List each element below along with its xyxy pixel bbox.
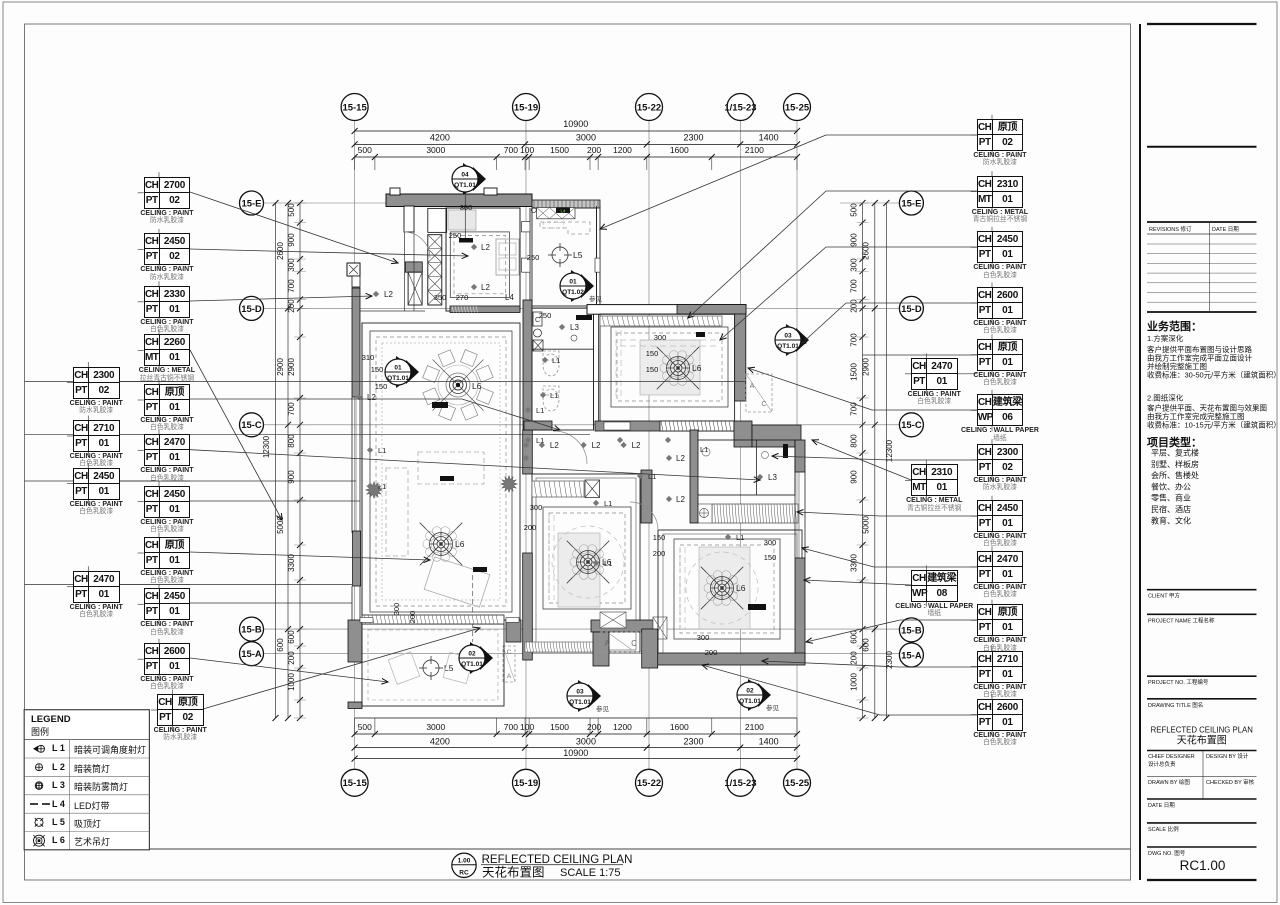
- svg-text:业务范围：: 业务范围：: [1147, 319, 1202, 333]
- svg-text:03: 03: [576, 689, 584, 696]
- svg-text:L1: L1: [604, 499, 612, 508]
- svg-text:02: 02: [746, 688, 754, 695]
- svg-text:700: 700: [287, 279, 296, 293]
- svg-text:700: 700: [850, 279, 859, 293]
- svg-text:15-B: 15-B: [901, 625, 922, 636]
- svg-text:15-25: 15-25: [785, 778, 810, 789]
- svg-text:300: 300: [850, 258, 859, 272]
- svg-text:L2: L2: [592, 441, 601, 450]
- svg-text:150: 150: [371, 365, 384, 374]
- svg-text:200: 200: [408, 611, 417, 624]
- svg-text:教育、文化: 教育、文化: [1151, 515, 1191, 525]
- svg-text:2900: 2900: [287, 358, 296, 376]
- svg-text:500: 500: [358, 722, 372, 732]
- svg-text:500: 500: [850, 203, 859, 217]
- svg-text:15-D: 15-D: [241, 304, 262, 315]
- svg-text:RC1.00: RC1.00: [1180, 858, 1226, 873]
- svg-text:150: 150: [653, 533, 666, 542]
- svg-text:CHECKED BY 审核: CHECKED BY 审核: [1206, 778, 1255, 786]
- svg-text:350: 350: [434, 293, 447, 302]
- svg-text:3300: 3300: [287, 554, 296, 572]
- svg-text:L6: L6: [455, 539, 465, 549]
- svg-text:L6: L6: [692, 363, 702, 373]
- svg-text:900: 900: [850, 233, 859, 247]
- svg-text:L3: L3: [570, 323, 579, 332]
- svg-text:10900: 10900: [563, 748, 588, 758]
- svg-text:5000: 5000: [862, 516, 871, 534]
- svg-text:由我方工作室完成完整施工图: 由我方工作室完成完整施工图: [1147, 411, 1245, 421]
- svg-text:100: 100: [520, 145, 534, 155]
- svg-text:1500: 1500: [850, 363, 859, 381]
- svg-text:A: A: [604, 639, 610, 648]
- svg-text:600: 600: [276, 638, 285, 652]
- svg-text:L1: L1: [378, 446, 386, 455]
- svg-text:L4: L4: [560, 208, 566, 213]
- svg-text:03: 03: [784, 333, 792, 340]
- svg-text:L2: L2: [384, 290, 393, 299]
- svg-text:L1: L1: [378, 482, 386, 491]
- svg-text:DATE 日期: DATE 日期: [1148, 802, 1175, 809]
- svg-text:参见: 参见: [596, 704, 610, 713]
- svg-text:QT1.01: QT1.01: [461, 661, 483, 668]
- svg-text:并绘制完整施工图: 并绘制完整施工图: [1147, 361, 1207, 371]
- svg-text:350: 350: [460, 203, 473, 212]
- svg-text:500: 500: [358, 145, 372, 155]
- svg-text:02: 02: [468, 651, 476, 658]
- svg-text:15-C: 15-C: [241, 420, 262, 431]
- svg-text:C: C: [507, 649, 512, 656]
- svg-text:15-22: 15-22: [637, 102, 661, 113]
- svg-text:REVISIONS 修订: REVISIONS 修订: [1149, 225, 1192, 233]
- svg-text:3000: 3000: [576, 737, 596, 747]
- svg-text:800: 800: [850, 434, 859, 448]
- svg-text:DRAWING TITLE 图名: DRAWING TITLE 图名: [1148, 701, 1203, 709]
- svg-text:REFLECTED CEILING PLAN: REFLECTED CEILING PLAN: [482, 854, 633, 866]
- svg-text:C: C: [761, 401, 766, 408]
- svg-text:100: 100: [520, 722, 534, 732]
- svg-text:L1: L1: [604, 559, 612, 568]
- svg-text:餐饮、办公: 餐饮、办公: [1151, 481, 1191, 491]
- svg-text:1600: 1600: [670, 145, 689, 155]
- svg-text:2100: 2100: [745, 145, 764, 155]
- svg-text:15-22: 15-22: [637, 778, 661, 789]
- svg-text:2.图纸深化: 2.图纸深化: [1147, 393, 1184, 403]
- svg-text:SCALE 比例: SCALE 比例: [1148, 825, 1179, 833]
- svg-text:15-D: 15-D: [901, 304, 922, 315]
- svg-text:200: 200: [705, 648, 718, 657]
- svg-text:150: 150: [646, 365, 659, 374]
- svg-text:L5: L5: [573, 250, 583, 260]
- svg-text:民宿、酒店: 民宿、酒店: [1151, 504, 1191, 514]
- svg-text:会所、售楼处: 会所、售楼处: [1151, 470, 1199, 480]
- svg-text:收费标准：30-50元/平方米（建筑面积）: 收费标准：30-50元/平方米（建筑面积）: [1147, 370, 1280, 380]
- svg-text:10900: 10900: [563, 119, 588, 129]
- svg-text:12300: 12300: [885, 439, 894, 462]
- svg-text:L3: L3: [768, 473, 777, 482]
- svg-text:SCALE 1:75: SCALE 1:75: [560, 867, 621, 879]
- svg-text:L2: L2: [481, 243, 490, 252]
- svg-text:200: 200: [587, 145, 601, 155]
- svg-text:250: 250: [527, 253, 540, 262]
- svg-text:15-C: 15-C: [901, 420, 922, 431]
- svg-text:CHIEF DESIGNER: CHIEF DESIGNER: [1148, 754, 1195, 760]
- svg-text:1000: 1000: [850, 673, 859, 691]
- svg-text:QT1.01: QT1.01: [569, 699, 591, 706]
- svg-text:600: 600: [862, 638, 871, 652]
- svg-text:L2: L2: [676, 495, 685, 504]
- svg-text:PROJECT NAME 工程名称: PROJECT NAME 工程名称: [1148, 616, 1215, 624]
- svg-text:2900: 2900: [862, 358, 871, 376]
- svg-text:A: A: [750, 383, 755, 390]
- svg-text:2600: 2600: [862, 242, 871, 260]
- svg-text:200: 200: [287, 299, 296, 313]
- svg-text:L1: L1: [736, 533, 744, 542]
- svg-text:200: 200: [287, 651, 296, 665]
- svg-text:1.方案深化: 1.方案深化: [1147, 333, 1184, 343]
- svg-text:收费标准：10-15元/平方米（建筑面积）: 收费标准：10-15元/平方米（建筑面积）: [1147, 420, 1280, 430]
- svg-text:900: 900: [850, 470, 859, 484]
- svg-text:QT1.01: QT1.01: [387, 375, 409, 382]
- svg-text:DWG NO. 图号: DWG NO. 图号: [1148, 849, 1186, 857]
- svg-text:150: 150: [764, 553, 777, 562]
- svg-text:由我方工作室完成平面立面设计: 由我方工作室完成平面立面设计: [1147, 353, 1252, 363]
- svg-text:2900: 2900: [276, 358, 285, 376]
- svg-text:3000: 3000: [426, 145, 445, 155]
- svg-text:200: 200: [850, 299, 859, 313]
- svg-text:参见: 参见: [766, 703, 780, 712]
- svg-text:CLIENT 甲方: CLIENT 甲方: [1148, 592, 1180, 600]
- svg-text:客户提供平面布置图与设计思路: 客户提供平面布置图与设计思路: [1147, 344, 1252, 354]
- svg-text:310: 310: [362, 353, 375, 362]
- svg-text:3000: 3000: [576, 133, 596, 143]
- svg-text:15-19: 15-19: [514, 102, 538, 113]
- svg-text:项目类型：: 项目类型：: [1147, 435, 1202, 449]
- svg-text:QT1.02: QT1.02: [562, 289, 584, 296]
- svg-text:150: 150: [646, 349, 659, 358]
- svg-text:1/15-23: 1/15-23: [724, 778, 756, 789]
- svg-text:1200: 1200: [613, 145, 632, 155]
- svg-text:250: 250: [449, 231, 462, 240]
- svg-text:L2: L2: [481, 283, 490, 292]
- svg-text:2100: 2100: [745, 722, 764, 732]
- svg-text:L1: L1: [700, 445, 708, 454]
- svg-text:200: 200: [653, 549, 666, 558]
- svg-text:15-25: 15-25: [785, 102, 810, 113]
- svg-text:1000: 1000: [287, 673, 296, 691]
- svg-text:2600: 2600: [276, 242, 285, 260]
- svg-text:01: 01: [569, 279, 577, 286]
- svg-text:3000: 3000: [426, 722, 445, 732]
- svg-text:DESIGN BY 设计: DESIGN BY 设计: [1206, 752, 1249, 760]
- svg-text:1500: 1500: [550, 145, 569, 155]
- svg-text:L6: L6: [736, 583, 746, 593]
- svg-text:1500: 1500: [550, 722, 569, 732]
- svg-text:设计总负责: 设计总负责: [1148, 760, 1176, 768]
- svg-text:15-E: 15-E: [241, 198, 261, 209]
- svg-text:L6: L6: [472, 381, 482, 391]
- svg-text:01: 01: [394, 365, 402, 372]
- svg-text:700: 700: [504, 722, 518, 732]
- svg-text:RC: RC: [459, 870, 469, 877]
- svg-text:600: 600: [287, 630, 296, 644]
- svg-text:2300: 2300: [683, 737, 703, 747]
- svg-text:DATE 日期: DATE 日期: [1212, 226, 1239, 233]
- svg-text:500: 500: [287, 203, 296, 217]
- svg-text:L1: L1: [648, 472, 656, 481]
- svg-text:300: 300: [697, 633, 710, 642]
- svg-text:L1: L1: [550, 391, 558, 400]
- svg-text:PROJECT NO. 工程编号: PROJECT NO. 工程编号: [1148, 678, 1209, 686]
- svg-text:1/15-23: 1/15-23: [724, 102, 756, 113]
- svg-text:15-15: 15-15: [342, 778, 367, 789]
- svg-text:700: 700: [287, 402, 296, 416]
- svg-text:L2: L2: [367, 393, 376, 402]
- svg-text:1600: 1600: [670, 722, 689, 732]
- svg-text:270: 270: [456, 293, 469, 302]
- svg-text:C: C: [631, 639, 637, 648]
- svg-text:别墅、样板房: 别墅、样板房: [1151, 459, 1199, 469]
- svg-text:4200: 4200: [430, 737, 450, 747]
- svg-text:参见: 参见: [589, 294, 603, 303]
- svg-text:A: A: [507, 673, 512, 680]
- svg-text:900: 900: [287, 233, 296, 247]
- svg-text:DRAWN BY 绘图: DRAWN BY 绘图: [1148, 778, 1190, 786]
- svg-text:4200: 4200: [430, 133, 450, 143]
- svg-text:L2: L2: [550, 441, 559, 450]
- svg-text:1400: 1400: [759, 737, 779, 747]
- svg-text:700: 700: [504, 145, 518, 155]
- svg-text:04: 04: [461, 172, 469, 179]
- svg-text:L1: L1: [536, 436, 544, 445]
- svg-text:15-15: 15-15: [342, 102, 367, 113]
- svg-text:15-E: 15-E: [901, 198, 921, 209]
- svg-text:2300: 2300: [683, 133, 703, 143]
- svg-text:QT1.01: QT1.01: [777, 343, 799, 350]
- svg-text:300: 300: [392, 603, 401, 616]
- svg-text:900: 900: [287, 470, 296, 484]
- svg-text:L4: L4: [505, 293, 514, 302]
- svg-text:QT1.01: QT1.01: [739, 698, 761, 705]
- svg-text:平层、复式楼: 平层、复式楼: [1151, 448, 1199, 458]
- svg-text:700: 700: [850, 333, 859, 347]
- svg-text:L2: L2: [632, 441, 641, 450]
- svg-text:300: 300: [530, 503, 543, 512]
- svg-text:15-A: 15-A: [241, 649, 262, 660]
- svg-text:12300: 12300: [262, 435, 271, 458]
- svg-text:200: 200: [850, 651, 859, 665]
- svg-text:REFLECTED CEILING PLAN: REFLECTED CEILING PLAN: [1151, 726, 1253, 735]
- svg-text:250: 250: [539, 311, 552, 320]
- svg-text:200: 200: [524, 523, 537, 532]
- svg-text:零售、商业: 零售、商业: [1151, 493, 1191, 503]
- svg-text:1.00: 1.00: [458, 857, 471, 864]
- svg-text:15-B: 15-B: [241, 625, 262, 636]
- svg-text:15-A: 15-A: [901, 650, 922, 661]
- svg-text:天花布置图: 天花布置图: [1177, 734, 1227, 747]
- svg-text:L2: L2: [676, 454, 685, 463]
- svg-text:15-19: 15-19: [514, 778, 538, 789]
- svg-text:200: 200: [587, 722, 601, 732]
- svg-text:L1: L1: [552, 356, 560, 365]
- svg-text:150: 150: [375, 382, 388, 391]
- svg-text:客户提供平面、天花布置图与效果图: 客户提供平面、天花布置图与效果图: [1147, 403, 1267, 413]
- svg-text:300: 300: [764, 538, 777, 547]
- svg-text:QT1.01: QT1.01: [454, 182, 476, 189]
- svg-text:L1: L1: [536, 406, 544, 415]
- svg-text:300: 300: [654, 333, 667, 342]
- svg-text:300: 300: [287, 258, 296, 272]
- svg-text:1400: 1400: [759, 133, 779, 143]
- svg-text:天花布置图: 天花布置图: [482, 865, 545, 880]
- svg-text:1200: 1200: [613, 722, 632, 732]
